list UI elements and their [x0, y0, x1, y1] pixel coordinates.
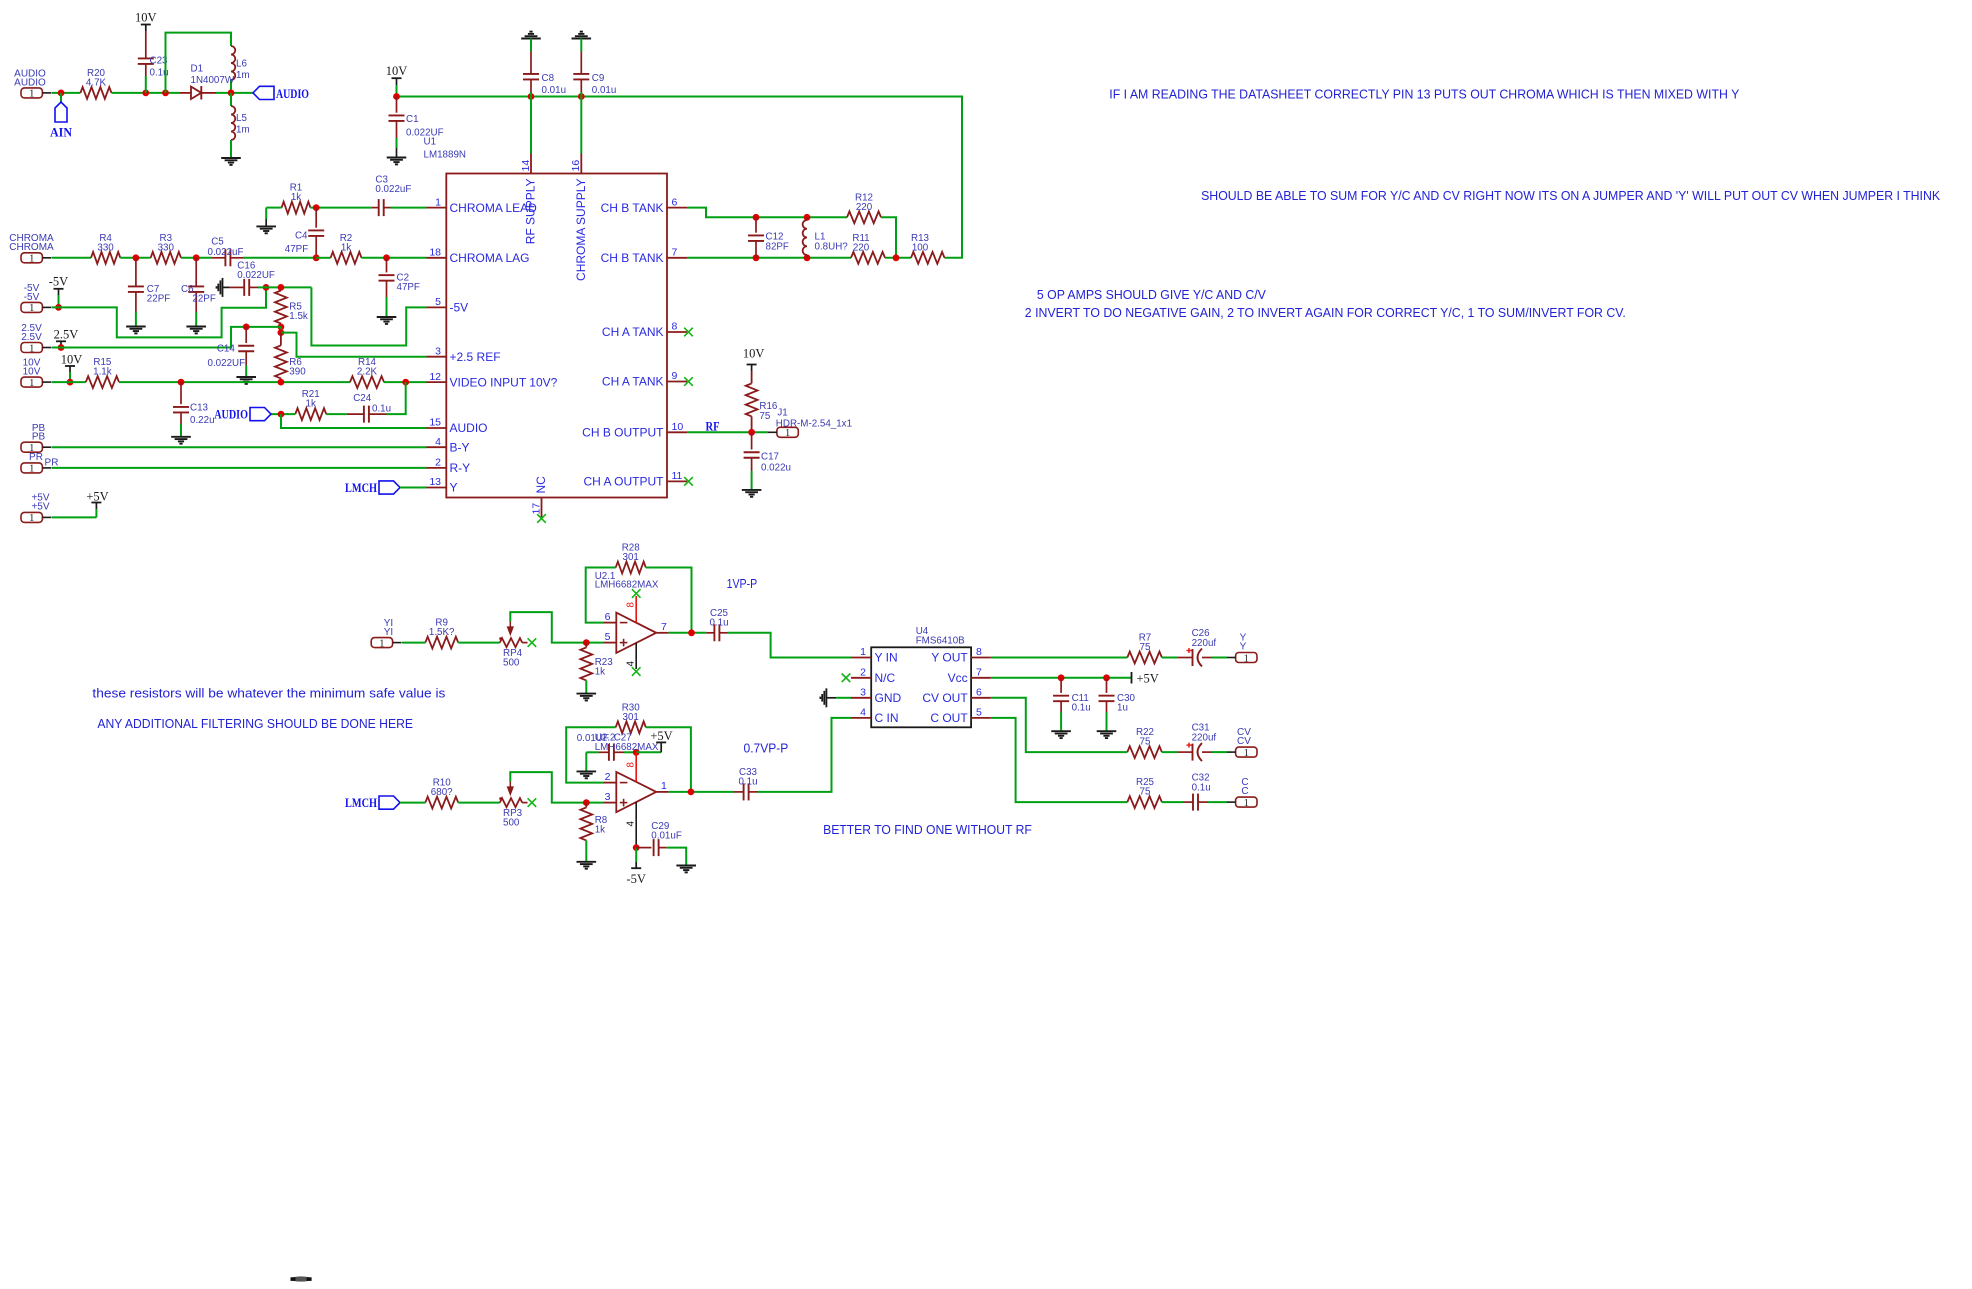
svg-text:CH B TANK: CH B TANK: [601, 201, 664, 215]
U4 pin 7 Vcc: [948, 667, 991, 686]
U1 pin 15 AUDIO: [427, 417, 488, 436]
power +5V (port): [86, 489, 108, 517]
svg-text:4: 4: [435, 436, 441, 448]
wire: [1212, 657, 1227, 659]
port -5V: [21, 283, 51, 314]
svg-text:C1: C1: [406, 114, 419, 125]
wire: [402, 642, 426, 644]
svg-text:L6: L6: [236, 59, 247, 70]
svg-text:ANY ADDITIONAL FILTERING SHOUL: ANY ADDITIONAL FILTERING SHOULD BE DONE …: [97, 716, 413, 731]
svg-text:CHROMA: CHROMA: [9, 242, 54, 253]
capacitor C7: [128, 258, 170, 327]
svg-text:4.7K: 4.7K: [86, 78, 107, 89]
svg-text:IF I AM READING THE DATASHEET: IF I AM READING THE DATASHEET CORRECTLY …: [1109, 87, 1739, 102]
wire pin7 row: [687, 257, 851, 259]
svg-text:10V: 10V: [61, 352, 83, 366]
wire: [1162, 751, 1178, 753]
wire: [181, 257, 212, 259]
hier label LMCH: [345, 796, 400, 810]
wire: [646, 568, 692, 633]
wire: [881, 217, 896, 257]
wire: [326, 413, 347, 415]
resistor R5: [275, 291, 308, 327]
svg-text:1m: 1m: [236, 125, 250, 136]
resistor R7: [1127, 633, 1162, 664]
potentiometer RP4: [499, 622, 527, 669]
capacitor C3: [372, 175, 411, 217]
U1 pin 18 CHROMA LAG: [427, 247, 530, 266]
svg-text:C OUT: C OUT: [930, 711, 968, 725]
svg-text:1VP-P: 1VP-P: [727, 576, 758, 591]
svg-text:C14: C14: [217, 344, 236, 355]
svg-text:6: 6: [672, 196, 678, 208]
svg-text:1: 1: [1244, 748, 1249, 759]
port Y: [1227, 633, 1257, 665]
svg-text:8: 8: [976, 646, 982, 658]
ground (C27): [577, 771, 597, 778]
svg-text:+5V: +5V: [650, 729, 672, 743]
svg-text:1: 1: [29, 89, 34, 100]
svg-text:301: 301: [623, 552, 639, 563]
svg-text:0.1u: 0.1u: [372, 404, 391, 415]
junction: [313, 254, 320, 261]
svg-text:22PF: 22PF: [192, 294, 215, 305]
svg-text:10: 10: [672, 421, 684, 433]
resistor R13: [911, 233, 945, 264]
junction: [193, 254, 200, 261]
ground (C29): [676, 866, 696, 873]
note 1VP-P: [727, 576, 758, 591]
svg-text:4: 4: [626, 661, 637, 667]
capacitor C23: [138, 56, 169, 93]
svg-text:CV: CV: [1237, 736, 1251, 747]
svg-text:1: 1: [29, 464, 34, 475]
junction: [1058, 674, 1065, 681]
svg-text:1m: 1m: [236, 70, 250, 81]
wire: [51, 92, 80, 94]
wire: [119, 381, 350, 383]
junction: [804, 254, 811, 261]
svg-text:1k: 1k: [595, 825, 605, 836]
svg-text:75: 75: [1140, 737, 1151, 748]
svg-text:Vcc: Vcc: [948, 671, 968, 685]
svg-text:LMCH: LMCH: [345, 481, 377, 495]
junction: [633, 844, 640, 851]
svg-text:13: 13: [429, 476, 441, 488]
svg-text:0.01u: 0.01u: [592, 85, 617, 96]
wire: [51, 467, 426, 469]
resistor R4: [91, 233, 120, 264]
svg-text:2 INVERT TO DO NEGATIVE GAIN,: 2 INVERT TO DO NEGATIVE GAIN, 2 TO INVER…: [1025, 305, 1626, 320]
wire: [400, 802, 425, 804]
U1 pin 4 B-Y: [427, 436, 470, 455]
resistor R20: [80, 68, 111, 99]
svg-text:YI: YI: [384, 627, 393, 638]
capacitor C29: [636, 821, 686, 866]
svg-text:5: 5: [605, 631, 611, 643]
wire: [636, 751, 661, 753]
wire: [885, 257, 911, 259]
svg-text:10V: 10V: [23, 367, 41, 378]
capacitor C31 (polarized): [1178, 723, 1216, 762]
note opamps: [1037, 287, 1266, 302]
wire: [1208, 801, 1227, 803]
wire: [51, 381, 85, 383]
power 2.5V: [54, 328, 79, 348]
junction: [278, 379, 285, 386]
wire: [646, 727, 691, 792]
U1 pin 7 CH B TANK: [601, 247, 687, 266]
port 2.5V: [21, 323, 51, 354]
wire: [458, 802, 500, 804]
svg-text:PB: PB: [32, 432, 46, 443]
potentiometer RP3: [499, 782, 527, 829]
svg-text:10V: 10V: [135, 10, 157, 24]
ground (C11): [1051, 731, 1071, 738]
svg-text:LMH6682MAX: LMH6682MAX: [595, 742, 659, 753]
U4 pin 4 C IN: [851, 707, 899, 726]
svg-text:L5: L5: [236, 113, 247, 124]
earth (U4 GND): [820, 688, 851, 707]
wire: [120, 257, 150, 259]
svg-text:7: 7: [661, 621, 667, 633]
note 0.7VP-P: [744, 741, 789, 756]
capacitor C9: [573, 39, 616, 97]
hier label AUDIO (out): [253, 86, 309, 101]
svg-text:BETTER TO FIND ONE WITHOUT RF: BETTER TO FIND ONE WITHOUT RF: [823, 822, 1032, 837]
svg-text:-5V: -5V: [24, 292, 40, 303]
svg-text:1: 1: [785, 428, 790, 439]
svg-text:J1: J1: [777, 408, 787, 419]
svg-text:47PF: 47PF: [397, 282, 420, 293]
junction: [133, 254, 140, 261]
svg-text:330: 330: [158, 242, 175, 253]
svg-text:CH B OUTPUT: CH B OUTPUT: [582, 426, 664, 440]
wire +2.5 to pin3: [281, 333, 427, 357]
junction: [67, 379, 74, 386]
svg-text:0.022UF: 0.022UF: [237, 270, 275, 281]
power +5V (U2.2): [650, 729, 672, 753]
wire: [60, 93, 62, 102]
wire RP3 wiper loop: [510, 772, 603, 803]
svg-text:-5V: -5V: [626, 872, 645, 886]
svg-text:4: 4: [860, 707, 866, 719]
no-connect pin 11: [684, 477, 693, 486]
no-connect RP3: [528, 798, 537, 807]
U1 pin 10 CH B OUTPUT: [582, 421, 687, 440]
capacitor C33: [734, 767, 758, 800]
svg-text:C: C: [1241, 786, 1248, 797]
svg-text:-5V: -5V: [49, 275, 68, 289]
svg-text:1k: 1k: [341, 242, 351, 253]
svg-text:Y: Y: [1240, 642, 1247, 653]
junction: [1103, 674, 1110, 681]
svg-text:B-Y: B-Y: [450, 440, 470, 454]
capacitor C16: [229, 261, 275, 296]
resistor R12: [847, 192, 881, 223]
svg-text:3: 3: [435, 345, 441, 357]
svg-text:AUDIO: AUDIO: [214, 408, 248, 422]
svg-text:1.5K?: 1.5K?: [429, 627, 455, 638]
svg-text:LM1889N: LM1889N: [424, 150, 466, 161]
U1 pin 5 -5V: [427, 296, 469, 315]
power 10V (C23): [135, 10, 157, 58]
svg-text:10V: 10V: [743, 346, 765, 360]
svg-text:1k: 1k: [291, 192, 301, 203]
note sum: [1201, 188, 1940, 203]
resistor R14: [350, 357, 384, 388]
resistor R1: [266, 183, 310, 214]
wire C out: [991, 718, 1127, 802]
resistor R30: [616, 702, 646, 733]
svg-text:1.5k: 1.5k: [289, 311, 308, 322]
junction: [753, 254, 760, 261]
op-amp U2.2: [595, 732, 669, 812]
svg-text:3: 3: [860, 687, 866, 699]
U1 pin 6 CH B TANK: [601, 196, 687, 215]
svg-text:75: 75: [1140, 642, 1151, 653]
wire pin10: [687, 431, 768, 433]
port YI: [371, 618, 401, 649]
power +5V (Vcc): [1132, 671, 1159, 685]
svg-text:1k: 1k: [595, 666, 605, 677]
svg-text:14: 14: [520, 160, 532, 172]
wire: [243, 257, 316, 259]
wire: [1212, 751, 1227, 753]
wire pin14: [530, 97, 532, 154]
wire: [669, 791, 734, 793]
wire feedback U2.1: [586, 568, 616, 623]
svg-text:AUDIO: AUDIO: [14, 77, 46, 88]
power -5V: [49, 275, 68, 308]
node AIN junction: [58, 90, 65, 97]
note filtering: [97, 716, 413, 731]
inductor L1: [803, 217, 849, 257]
svg-text:Y: Y: [450, 481, 458, 495]
svg-text:10V: 10V: [386, 64, 408, 78]
wire: [1162, 657, 1178, 659]
svg-text:11: 11: [672, 470, 683, 482]
svg-text:C24: C24: [353, 393, 372, 404]
svg-text:4: 4: [626, 821, 637, 827]
ground (R1): [256, 208, 276, 234]
svg-text:C IN: C IN: [875, 711, 899, 725]
svg-text:15: 15: [429, 417, 441, 429]
svg-text:0.01u: 0.01u: [542, 85, 567, 96]
U1 pin 11 CH A OUTPUT: [583, 470, 687, 489]
capacitor C13: [173, 382, 215, 437]
junction: [263, 284, 270, 291]
resistor R25: [1127, 777, 1162, 808]
svg-text:D1: D1: [191, 64, 204, 75]
svg-text:5: 5: [976, 707, 982, 719]
wire 10V rail: [397, 97, 963, 258]
svg-text:1: 1: [29, 303, 34, 314]
svg-text:GND: GND: [875, 691, 902, 705]
svg-text:Y OUT: Y OUT: [931, 651, 968, 665]
resistor R21: [295, 389, 326, 420]
wire CV out: [991, 698, 1127, 752]
svg-text:1.1k: 1.1k: [93, 367, 112, 378]
svg-text:3: 3: [605, 791, 611, 803]
op-amp U2.1: [595, 571, 669, 653]
wire: [391, 207, 427, 209]
svg-text:1u: 1u: [1117, 703, 1128, 714]
U4 pin 5 C OUT: [930, 707, 991, 726]
svg-text:100: 100: [912, 242, 929, 253]
resistor R3: [151, 233, 181, 264]
no-connect pin 8: [684, 328, 693, 337]
svg-text:330: 330: [97, 242, 114, 253]
junction: [58, 344, 65, 351]
svg-text:12: 12: [429, 371, 441, 383]
svg-text:AIN: AIN: [50, 126, 72, 140]
svg-text:CH B TANK: CH B TANK: [601, 251, 664, 265]
svg-text:2.5V: 2.5V: [21, 332, 42, 343]
U1 pin 17 NC: [530, 476, 548, 523]
svg-text:680?: 680?: [431, 787, 453, 798]
svg-text:AUDIO: AUDIO: [450, 421, 488, 435]
U1 pin 16 CHROMA SUPPLY: [570, 154, 588, 281]
svg-text:C4: C4: [295, 231, 308, 242]
wire C24 riser: [387, 382, 406, 414]
wire: [280, 327, 282, 333]
svg-text:CH A TANK: CH A TANK: [602, 325, 664, 339]
svg-text:SHOULD BE ABLE TO SUM FOR Y/C: SHOULD BE ABLE TO SUM FOR Y/C AND CV RIG…: [1201, 188, 1940, 203]
junction: [688, 629, 695, 636]
diode D1 1N4007W: [180, 64, 235, 100]
svg-text:75: 75: [759, 411, 770, 422]
resistor R9: [425, 618, 458, 649]
svg-text:0.1u: 0.1u: [1192, 782, 1211, 793]
svg-text:75: 75: [1140, 787, 1151, 798]
capacitor C5: [208, 237, 244, 267]
svg-text:2.5V: 2.5V: [54, 328, 79, 342]
hier label AUDIO (mid): [214, 408, 271, 422]
earth (C16): [217, 278, 230, 297]
U1 pin 9 CH A TANK: [602, 370, 687, 389]
svg-text:C8: C8: [542, 73, 555, 84]
U1 pin 1 CHROMA LEAD: [427, 196, 538, 215]
junction: [528, 93, 535, 100]
ground up (C8): [521, 32, 541, 39]
wire: [362, 257, 427, 259]
port 10V: [21, 358, 51, 389]
ground (R8): [577, 862, 597, 869]
svg-text:C5: C5: [211, 237, 224, 248]
svg-text:CHROMA LAG: CHROMA LAG: [450, 251, 530, 265]
svg-text:0.22u: 0.22u: [190, 415, 215, 426]
svg-text:500: 500: [503, 817, 520, 828]
wire to Y IN: [728, 633, 852, 658]
inductor L5: [231, 93, 250, 158]
capacitor C1: [389, 97, 444, 158]
power -5V (U2.2): [626, 848, 645, 886]
resistor R16: [746, 383, 778, 432]
port CHROMA: [9, 233, 54, 264]
wire Vcc: [991, 677, 1132, 679]
svg-text:RF SUPPLY: RF SUPPLY: [524, 179, 538, 245]
junction: [753, 214, 760, 221]
svg-text:0.8UH?: 0.8UH?: [815, 242, 849, 253]
svg-text:CHROMA SUPPLY: CHROMA SUPPLY: [574, 179, 588, 281]
junction: [383, 254, 390, 261]
no-connect pin 9: [684, 377, 693, 386]
svg-text:1: 1: [1244, 653, 1249, 664]
svg-text:R-Y: R-Y: [450, 461, 471, 475]
capacitor C32: [1183, 773, 1211, 811]
hier label AIN: [50, 102, 72, 140]
IC U1 LM1889N box: [446, 174, 667, 498]
svg-text:16: 16: [570, 160, 582, 172]
U4 pin 1 Y IN: [851, 646, 898, 665]
svg-text:LMCH: LMCH: [345, 796, 377, 810]
svg-text:0.022UF: 0.022UF: [208, 358, 246, 369]
svg-text:1: 1: [435, 196, 441, 208]
wire Y out: [991, 657, 1127, 659]
junction: [633, 749, 640, 756]
svg-text:1N4007W: 1N4007W: [191, 75, 235, 86]
capacitor C26 (polarized): [1178, 628, 1216, 667]
U2.2 pin 4: [626, 802, 637, 848]
svg-text:+2.5 REF: +2.5 REF: [450, 350, 501, 364]
hier label LMCH (pin13): [345, 481, 400, 495]
svg-text:0.7VP-P: 0.7VP-P: [744, 741, 789, 756]
resistor R23: [580, 643, 613, 694]
no-connect U4 pin2: [842, 674, 851, 683]
U1 pin 14 RF SUPPLY: [520, 154, 538, 245]
U4 pin 6 CV OUT: [922, 687, 991, 706]
U1 pin 2 R-Y: [427, 457, 471, 476]
capacitor C2: [379, 258, 420, 317]
junction: [688, 789, 695, 796]
svg-text:0.1u: 0.1u: [1072, 703, 1091, 714]
capacitor C8: [523, 39, 566, 97]
svg-text:AUDIO: AUDIO: [276, 87, 309, 101]
wire: [230, 80, 232, 93]
junction: [578, 93, 585, 100]
wire: [51, 446, 426, 448]
wire: [1162, 801, 1183, 803]
svg-text:8: 8: [626, 762, 637, 768]
svg-text:1: 1: [379, 638, 384, 649]
svg-text:17: 17: [530, 503, 542, 515]
resistor R11: [851, 233, 885, 264]
svg-text:CH A TANK: CH A TANK: [602, 375, 664, 389]
IC U4 FMS6410B box: [871, 626, 971, 727]
capacitor C30: [1099, 678, 1136, 731]
svg-text:2: 2: [860, 667, 866, 679]
junction: [278, 324, 285, 331]
note better: [823, 822, 1032, 837]
capacitor C12: [748, 217, 789, 257]
ground (L5): [221, 158, 241, 165]
svg-text:220uf: 220uf: [1192, 638, 1217, 649]
svg-text:220: 220: [856, 202, 873, 213]
resistor R15: [86, 357, 119, 388]
svg-text:-5V: -5V: [450, 301, 469, 315]
svg-text:C13: C13: [190, 403, 209, 414]
junction: [393, 93, 400, 100]
svg-text:FMS6410B: FMS6410B: [916, 636, 965, 647]
capacitor C11: [1053, 678, 1091, 731]
svg-text:5: 5: [435, 296, 441, 308]
wire RP4 wiper loop: [510, 612, 603, 643]
svg-text:500: 500: [503, 657, 520, 668]
U4 pin 8 Y OUT: [931, 646, 991, 665]
svg-text:0.1u: 0.1u: [738, 777, 757, 788]
svg-text:390: 390: [289, 367, 306, 378]
